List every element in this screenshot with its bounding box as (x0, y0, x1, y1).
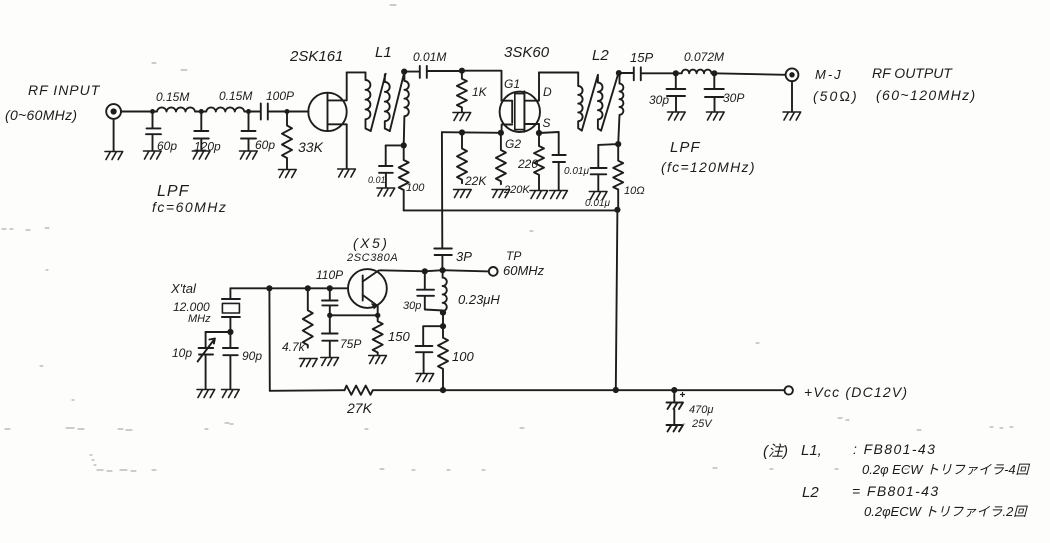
svg-text:LPF: LPF (157, 183, 190, 200)
svg-text:L2: L2 (592, 47, 609, 64)
node 3 (246, 109, 251, 114)
ground (416, 374, 434, 382)
inductor 0.23uH (443, 270, 447, 312)
node Vcc drop (266, 285, 272, 291)
wire L2 diagonal 1 (582, 75, 598, 131)
svg-text:2SC380A: 2SC380A (346, 252, 398, 264)
svg-text:(0~60MHz): (0~60MHz) (5, 107, 77, 123)
capacitor 30P LPF right (705, 73, 724, 111)
resistor 10ohm (613, 144, 623, 210)
connector J1 RF input (106, 104, 121, 151)
transistor Q1 2SK161 (308, 72, 346, 168)
svg-text:220: 220 (517, 157, 538, 171)
ground (144, 151, 162, 159)
svg-text:150: 150 (388, 329, 410, 344)
inductor L2 winding 1 (578, 73, 582, 131)
inductor L1 winding 1 (366, 72, 371, 131)
svg-text:L1: L1 (375, 44, 392, 61)
ground (338, 169, 356, 177)
svg-text:60MHz: 60MHz (503, 263, 545, 278)
ground (783, 112, 801, 120)
node feedback (375, 313, 380, 318)
svg-text:1K: 1K (472, 85, 488, 99)
svg-text:30p: 30p (649, 93, 669, 107)
capacitor 470u electrolytic (667, 390, 685, 431)
wire input to node1 (121, 111, 153, 113)
wire G2 rail (442, 131, 501, 134)
svg-text:= FB801-43: = FB801-43 (852, 483, 940, 499)
svg-text:0.15M: 0.15M (219, 89, 252, 103)
capacitor 30p osc (417, 271, 443, 310)
wire crystal to trimmer (206, 331, 231, 333)
capacitor 15P output (619, 67, 676, 80)
svg-text:12.000: 12.000 (173, 300, 210, 314)
wire drain to L1 (347, 71, 366, 73)
svg-text:(X5): (X5) (353, 235, 389, 251)
wire Vcc rail left (270, 389, 345, 392)
svg-text:100: 100 (452, 349, 474, 364)
node base 110p (327, 285, 333, 291)
ground (240, 151, 258, 159)
capacitor 0.01 L1 bypass (379, 145, 393, 187)
node Vcc 100 (440, 387, 446, 393)
node collector 30p (422, 268, 428, 274)
svg-text:110P: 110P (316, 268, 343, 282)
svg-text:15P: 15P (630, 50, 653, 65)
resistor 1K (457, 71, 467, 112)
svg-text:4.7k: 4.7k (282, 340, 306, 354)
wire mid rail down to Vcc rail (616, 210, 618, 390)
node 110p 75p junction (327, 313, 332, 318)
svg-text:MHz: MHz (188, 313, 211, 325)
ground (279, 170, 297, 178)
inductor L1 winding 3 (404, 72, 409, 146)
inductor 0.072M (676, 70, 715, 74)
svg-text:0.072M: 0.072M (684, 50, 724, 64)
resistor 27K (345, 386, 373, 395)
node collector 3P (440, 267, 446, 273)
svg-text:G1: G1 (504, 77, 520, 91)
node mid rail right (614, 207, 620, 213)
wire tank nodes (442, 313, 444, 327)
inductor L2 winding 3 (618, 73, 623, 144)
node L1 bottom (401, 142, 407, 148)
node L2 top (616, 70, 622, 76)
svg-text:120p: 120p (194, 140, 221, 154)
node L1 top (401, 69, 407, 75)
node osc tank 1 (440, 310, 446, 316)
wire to G1 (462, 71, 502, 101)
node Vcc 470u (671, 387, 677, 393)
ground (530, 191, 548, 199)
ground (668, 112, 686, 120)
capacitor osc bypass (416, 326, 443, 373)
svg-text:L1,: L1, (801, 442, 822, 459)
svg-text:100: 100 (406, 182, 425, 194)
svg-text:0.15M: 0.15M (156, 90, 189, 104)
ground (454, 190, 472, 198)
svg-text:fc=60MHz: fc=60MHz (152, 199, 227, 215)
node base 4.7k (305, 285, 311, 291)
ground (105, 152, 123, 160)
svg-text:3SK60: 3SK60 (504, 44, 550, 61)
svg-text:0.2φ ECW トリファイラ-4回: 0.2φ ECW トリファイラ-4回 (862, 462, 1031, 477)
ground (300, 359, 318, 367)
wire L1 diagonal 2 (390, 74, 404, 131)
terminal TP (489, 267, 498, 276)
capacitor 0.01M interstage (404, 66, 462, 78)
resistor 220K (496, 133, 506, 184)
node 1K top (459, 68, 465, 74)
capacitor 110P (322, 288, 338, 315)
svg-text:+Vcc (DC12V): +Vcc (DC12V) (804, 384, 908, 400)
resistor 33K (282, 112, 292, 169)
svg-text:(fc=120MHz): (fc=120MHz) (661, 159, 756, 175)
node osc tank 2 (440, 323, 446, 329)
svg-text:470μ: 470μ (689, 404, 713, 416)
svg-text:25V: 25V (691, 418, 713, 430)
crystal X1 (222, 288, 240, 332)
node Vcc mid (613, 387, 619, 393)
ground (222, 390, 240, 398)
node 1 (150, 109, 155, 114)
capacitor 90p (223, 332, 238, 389)
wire emitter feedback (330, 314, 378, 316)
wire Vcc rail right (373, 389, 785, 391)
wire collector (381, 270, 489, 271)
svg-text:30p: 30p (403, 300, 421, 312)
terminal +Vcc (785, 386, 793, 394)
svg-text:RF OUTPUT: RF OUTPUT (872, 65, 953, 81)
node LPF in (673, 70, 679, 76)
node crystal bottom (227, 329, 233, 335)
resistor 100 below L1 (399, 145, 409, 210)
wire G2 down to 3P (441, 132, 443, 248)
capacitor 75P (322, 315, 338, 357)
wire L2 bottom to bypass (598, 143, 618, 146)
wire mid Vcc rail (404, 209, 618, 211)
wire node4 to gate (287, 111, 309, 113)
svg-text:10Ω: 10Ω (624, 185, 645, 197)
ground (321, 358, 339, 366)
capacitor 60p second (241, 112, 256, 151)
ground (453, 113, 471, 121)
svg-text:220K: 220K (503, 184, 530, 196)
wire node down to Vcc rail (268, 288, 270, 391)
svg-text:27K: 27K (346, 400, 373, 416)
wire drain to L2 (539, 72, 578, 74)
ground (589, 192, 607, 200)
capacitor 100P series (249, 104, 288, 120)
transistor Q2 3SK60 (500, 73, 540, 134)
svg-text:TP: TP (506, 249, 521, 263)
inductor 0.15M first (153, 107, 202, 111)
capacitor 0.01u source bypass (539, 132, 566, 190)
svg-text:75P: 75P (340, 337, 361, 351)
node source (536, 130, 542, 136)
inductor L1 winding 2 (385, 75, 390, 132)
node 4 (285, 109, 290, 114)
capacitor 0.01u L2 bypass (591, 145, 607, 191)
ground (369, 356, 387, 364)
connector M-J output (786, 68, 799, 111)
svg-text:0.01μ: 0.01μ (585, 198, 610, 209)
node 2 (199, 109, 204, 114)
wire base rail (230, 287, 348, 289)
capacitor 60p (146, 112, 161, 151)
capacitor 3P (434, 249, 452, 271)
svg-text:2SK161: 2SK161 (289, 48, 343, 65)
svg-text:0.01μ: 0.01μ (564, 166, 589, 177)
svg-text:LPF: LPF (670, 139, 701, 156)
inductor L2 winding 2 (598, 76, 603, 131)
inductor 0.15M second (201, 107, 249, 111)
resistor 22K (457, 133, 467, 184)
svg-text:(60~120MHz): (60~120MHz) (876, 87, 977, 103)
node G2 rail right (498, 130, 504, 136)
svg-text:100P: 100P (266, 89, 294, 103)
capacitor 10p trimmer (198, 332, 215, 389)
svg-text:(注): (注) (763, 443, 788, 460)
svg-text:(50Ω): (50Ω) (813, 88, 859, 104)
wire LPF to output connector (714, 73, 785, 75)
svg-text:L2: L2 (802, 484, 819, 501)
svg-text:60p: 60p (255, 138, 275, 152)
svg-text:RF INPUT: RF INPUT (28, 82, 101, 98)
capacitor 120p (194, 112, 209, 151)
svg-text:0.2φECW トリファイラ.2回: 0.2φECW トリファイラ.2回 (864, 504, 1028, 519)
svg-text:3P: 3P (456, 249, 472, 264)
svg-text:D: D (543, 85, 552, 99)
ground (377, 188, 395, 196)
wire L1 diagonal 1 (371, 74, 386, 131)
svg-text:G2: G2 (505, 137, 521, 151)
transistor Q3 2SC380A (348, 269, 387, 315)
svg-text:X'tal: X'tal (170, 281, 197, 296)
resistor 220 (534, 133, 544, 190)
ground (192, 151, 210, 159)
svg-text:10p: 10p (172, 346, 192, 360)
resistor 100 osc (438, 326, 448, 390)
capacitor 30p LPF left (667, 73, 686, 111)
svg-text:90p: 90p (242, 349, 262, 363)
node LPF out (711, 70, 717, 76)
svg-text:0.01M: 0.01M (413, 50, 446, 64)
ground (550, 191, 568, 199)
svg-text:0.01: 0.01 (368, 175, 386, 185)
svg-text:60p: 60p (157, 139, 177, 153)
svg-text:S: S (543, 116, 551, 130)
svg-text:30P: 30P (723, 91, 744, 105)
svg-text:M-J: M-J (815, 67, 843, 82)
svg-text:33K: 33K (298, 139, 324, 155)
ground (197, 390, 215, 398)
svg-text:0.23μH: 0.23μH (458, 292, 500, 307)
svg-text:: FB801-43: : FB801-43 (853, 441, 936, 457)
node G2 rail 22K (459, 129, 465, 135)
ground (492, 190, 510, 198)
ground (707, 112, 725, 120)
svg-text:22K: 22K (464, 174, 487, 188)
node L2 bottom (615, 141, 621, 147)
wire L1 bottom to bypass cap (386, 144, 404, 146)
resistor 4.7k (303, 288, 313, 347)
wire L2 diagonal 2 (601, 74, 618, 131)
resistor 150 emitter (373, 315, 383, 354)
